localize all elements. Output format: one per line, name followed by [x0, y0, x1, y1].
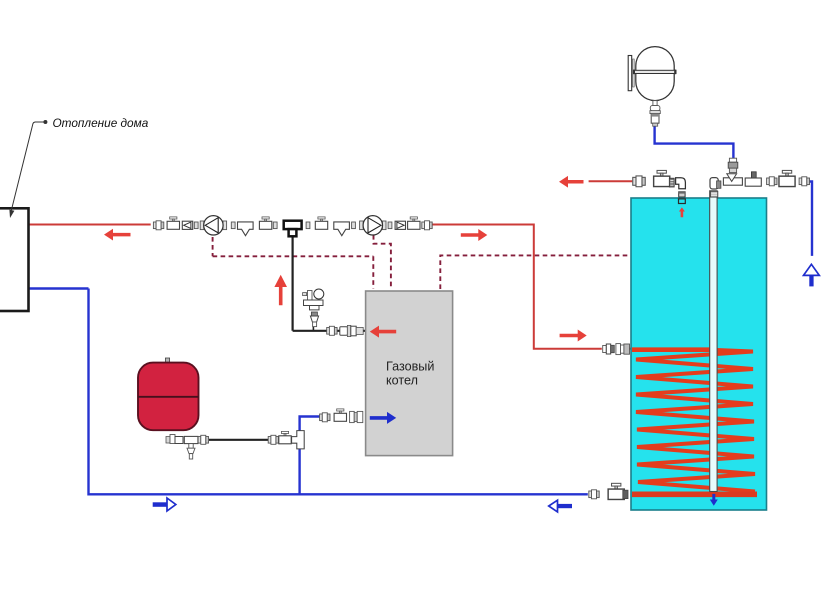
- svg-text:Отопление дома: Отопление дома: [53, 116, 149, 130]
- svg-text:котел: котел: [386, 374, 418, 388]
- svg-text:Газовый: Газовый: [386, 360, 434, 374]
